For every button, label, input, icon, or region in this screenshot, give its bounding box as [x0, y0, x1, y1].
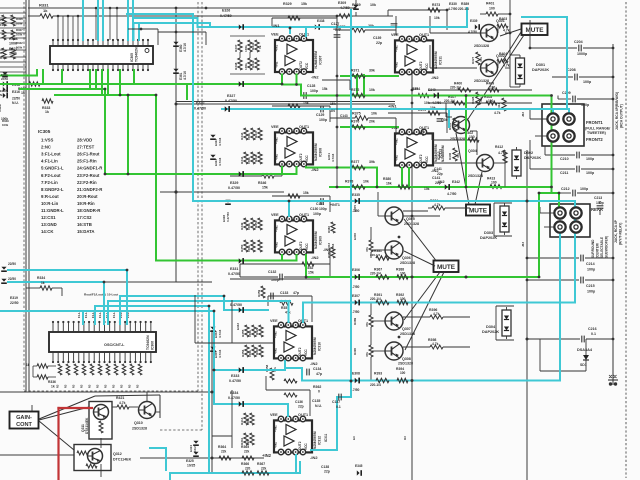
IC305 top pins	[52, 40, 54, 46]
svg-text:E325: E325	[186, 459, 194, 463]
jack pin F1R ring	[563, 113, 574, 124]
svg-text:+IN1: +IN1	[275, 45, 279, 52]
svg-text:OUT2: OUT2	[298, 441, 302, 450]
wire cyan IC306 left feed2	[8, 281, 104, 283]
svg-text:E333: E333	[231, 374, 239, 378]
svg-text:24:GNDF1-R: 24:GNDF1-R	[77, 166, 103, 171]
svg-text:Q304: Q304	[468, 149, 477, 153]
svg-text:10k: 10k	[370, 3, 376, 7]
svg-text:16:STB: 16:STB	[77, 222, 92, 227]
svg-text:1:VSS: 1:VSS	[41, 138, 54, 143]
capacitor C208	[552, 76, 573, 78]
svg-text:47k: 47k	[479, 57, 483, 62]
svg-text:0.47/50: 0.47/50	[226, 212, 230, 222]
svg-text:NJM4565M: NJM4565M	[434, 51, 438, 69]
svg-text:N.U.: N.U.	[0, 93, 6, 97]
left edge stub rows	[0, 7, 26, 9]
svg-text:VCC: VCC	[305, 62, 309, 69]
svg-text:R389: R389	[353, 317, 357, 325]
svg-text:+IN1: +IN1	[275, 225, 279, 232]
jack pin RR	[570, 207, 581, 218]
svg-text:C129: C129	[316, 113, 324, 117]
svg-text:R381: R381	[421, 128, 425, 136]
svg-text:10k: 10k	[424, 187, 430, 191]
svg-text:NJM4565M: NJM4565M	[313, 337, 317, 355]
svg-text:R376: R376	[351, 120, 359, 124]
jack pin RR ring	[570, 207, 581, 218]
jack pin SL	[554, 221, 565, 232]
svg-text:100k: 100k	[244, 45, 248, 52]
svg-text:R355: R355	[241, 329, 245, 337]
svg-text:100: 100	[400, 371, 406, 375]
svg-text:0.47/50: 0.47/50	[220, 14, 232, 18]
capacitor E325	[193, 452, 198, 455]
svg-text:4.7k: 4.7k	[498, 151, 505, 155]
svg-text:E331: E331	[230, 267, 238, 271]
svg-text:F1-L: F1-L	[77, 312, 81, 318]
svg-text:E332: E332	[236, 323, 240, 330]
wire cyan long y380	[302, 380, 560, 382]
svg-text:-IN2: -IN2	[395, 155, 399, 161]
svg-text:VCC: VCC	[305, 155, 309, 162]
capacitor E342 body	[445, 184, 448, 189]
resistor R367b body	[257, 471, 269, 475]
svg-text:47k: 47k	[365, 247, 369, 252]
capacitor E329	[239, 171, 242, 176]
svg-text:10k: 10k	[363, 180, 369, 184]
jack pin SL ring	[554, 221, 565, 232]
svg-text:12:CS1: 12:CS1	[41, 215, 56, 220]
svg-text:1k: 1k	[51, 385, 55, 389]
resistor group R344 R348 A2	[244, 152, 248, 164]
resistor R336	[37, 375, 48, 379]
svg-text:VEE: VEE	[270, 413, 278, 417]
svg-text:+IN1: +IN1	[274, 425, 278, 432]
svg-text:R329: R329	[283, 2, 292, 6]
resistor R375	[330, 117, 355, 119]
resistor Q312 emitter	[86, 464, 97, 468]
wire green R376 row	[341, 126, 398, 128]
junction dots coloured	[465, 94, 468, 97]
svg-text:C215: C215	[586, 284, 595, 288]
wire right cap bus x613	[612, 44, 614, 385]
svg-text:R360: R360	[255, 347, 259, 355]
svg-text:R3: R3	[403, 436, 407, 440]
svg-text:OUT1: OUT1	[419, 33, 429, 37]
wire cyan long y109	[222, 108, 567, 110]
svg-text:10k: 10k	[369, 88, 375, 92]
resistor R335	[37, 364, 48, 368]
svg-text:100: 100	[489, 7, 495, 11]
svg-text:100k: 100k	[247, 245, 251, 252]
resistor R383 R386 columns	[331, 222, 335, 233]
svg-text:100p: 100p	[313, 212, 321, 216]
svg-text:4.7k: 4.7k	[503, 29, 510, 33]
op-amp U-IC313 B2	[395, 133, 433, 165]
svg-text:R367: R367	[257, 462, 265, 466]
svg-text:R353: R353	[254, 220, 258, 228]
svg-text:E319: E319	[10, 296, 18, 300]
wire jack R stubs	[540, 212, 554, 214]
wire black chain x337	[336, 16, 338, 187]
svg-text:+IN1: +IN1	[395, 45, 399, 52]
mute box M1	[522, 24, 548, 36]
svg-text:22/50: 22/50	[8, 262, 16, 266]
jack pin F2R	[563, 130, 574, 141]
resistor R388	[397, 275, 408, 279]
wire bottom stub rows	[0, 454, 74, 456]
wire green long y187	[330, 186, 552, 188]
svg-text:100: 100	[488, 99, 494, 103]
svg-text:22p: 22p	[324, 470, 330, 474]
svg-text:2SD1328: 2SD1328	[474, 44, 489, 48]
svg-text:E342: E342	[452, 180, 460, 184]
wire green B1 pin stubs	[356, 75, 358, 96]
svg-text:-IN1: -IN1	[272, 23, 280, 28]
svg-text:OUT2: OUT2	[419, 154, 423, 163]
svg-text:22/50: 22/50	[8, 277, 16, 281]
svg-text:TWEETER): TWEETER)	[587, 131, 607, 135]
svg-text:4.7/16: 4.7/16	[331, 243, 335, 252]
border dash-dot bottom	[24, 390, 198, 392]
svg-text:100k: 100k	[16, 22, 23, 26]
svg-text:7:F2-Lin: 7:F2-Lin	[41, 180, 58, 185]
resistor R346	[262, 174, 274, 178]
capacitor E333 body	[239, 367, 242, 372]
jack pin F1R	[563, 113, 574, 124]
wire cyan A3 inp stub	[288, 201, 290, 216]
wire green junction x466	[465, 96, 467, 188]
svg-text:2SD1328: 2SD1328	[400, 332, 415, 336]
feedback A2: resistor R345	[272, 105, 330, 107]
wire green rear jack link	[539, 192, 559, 194]
wire green long G2 y95.5	[301, 95, 552, 97]
wire cyan input row y27	[198, 26, 468, 28]
op-amp U-IC309 A3	[275, 220, 313, 252]
svg-text:MUTE: MUTE	[525, 27, 544, 34]
capacitor E335 body	[355, 198, 358, 203]
svg-text:22k: 22k	[244, 450, 250, 454]
svg-text:F1-L: F1-L	[98, 312, 102, 318]
transistor Q306	[385, 241, 403, 259]
svg-text:22/50: 22/50	[12, 97, 20, 101]
svg-text:+IN2: +IN2	[262, 453, 272, 458]
svg-text:R346: R346	[258, 181, 266, 185]
svg-text:22k: 22k	[221, 450, 227, 454]
svg-text:D304: D304	[486, 325, 496, 329]
resistor group R356 R360 A4	[245, 345, 249, 357]
wire DSA3A4 bottom	[540, 370, 586, 372]
svg-text:SURROUND: SURROUND	[591, 239, 595, 258]
svg-text:10k: 10k	[413, 87, 419, 91]
resistor Q312 base	[77, 451, 88, 455]
wire green A3 out to y277	[305, 255, 307, 277]
capacitor E324	[193, 441, 198, 444]
svg-text:R350: R350	[240, 244, 244, 252]
svg-text:-IN2: -IN2	[311, 75, 319, 80]
svg-text:OUT2: OUT2	[299, 153, 303, 162]
svg-text:R334: R334	[37, 276, 45, 280]
svg-text:N.U.: N.U.	[12, 101, 19, 105]
wire cyan A4 bottom jog	[284, 361, 286, 368]
capacitor C137 body	[338, 394, 340, 401]
svg-text:15k: 15k	[330, 102, 336, 106]
svg-text:220-1/4: 220-1/4	[444, 99, 455, 103]
text block IC305 pin list	[38, 129, 103, 234]
resistor R365	[242, 456, 254, 460]
wire cyan top line1	[127, 13, 193, 15]
svg-text:0.47/50: 0.47/50	[194, 107, 206, 111]
resistor R404	[497, 59, 508, 63]
capacitor E341 body	[434, 93, 437, 98]
wire Q303 base link	[445, 103, 447, 117]
svg-text:IC310: IC310	[318, 342, 322, 351]
svg-text:2SD1328: 2SD1328	[398, 362, 413, 366]
svg-text:0.1: 0.1	[591, 332, 596, 336]
svg-text:C136: C136	[295, 400, 303, 404]
wire vertical E360 column	[175, 8, 177, 282]
svg-text:C137: C137	[332, 400, 340, 404]
capacitor C139	[391, 23, 398, 25]
svg-text:E326: E326	[222, 9, 230, 13]
svg-text:R3: R3	[104, 384, 108, 388]
svg-text:VEE: VEE	[270, 319, 278, 323]
resistor R333	[42, 99, 53, 103]
svg-text:R327: R327	[471, 56, 475, 64]
svg-text:R-L: R-L	[0, 51, 5, 55]
wire top rail	[28, 7, 356, 9]
capacitor E328	[225, 200, 230, 203]
capacitor E302	[210, 327, 215, 330]
svg-text:-IN2: -IN2	[275, 61, 279, 67]
feedback network B1: resistor R373	[388, 9, 447, 11]
wire mute M2 fan	[404, 219, 436, 261]
svg-text:C128: C128	[307, 84, 315, 88]
svg-text:R349: R349	[240, 222, 244, 230]
svg-text:R412: R412	[495, 145, 503, 149]
svg-text:100k: 100k	[16, 46, 23, 50]
svg-text:C139: C139	[373, 36, 381, 40]
svg-text:100p: 100p	[586, 171, 595, 175]
svg-text:Q310: Q310	[134, 421, 143, 425]
op-amp U-IC312 A5	[274, 420, 312, 452]
transistor Q302	[481, 60, 498, 77]
svg-text:R337: R337	[234, 44, 238, 52]
svg-text:DAP202K: DAP202K	[532, 68, 549, 72]
resistor R378 body	[352, 185, 365, 189]
capacitor C215	[527, 279, 579, 281]
wire cyan long y201	[193, 200, 575, 202]
mute box M2	[434, 261, 459, 273]
resistor group R350 R354 A3	[244, 240, 248, 252]
svg-text:-IN2: -IN2	[431, 75, 439, 80]
svg-text:E339: E339	[470, 19, 478, 23]
IC U-IC305 TC9462N	[50, 46, 153, 64]
resistor R394 body	[397, 378, 408, 382]
resistor R411	[502, 98, 506, 111]
jack pin RL	[554, 207, 565, 218]
capacitor E313 body	[1, 267, 6, 270]
svg-text:-IN2: -IN2	[310, 361, 318, 366]
svg-text:E320: E320	[196, 101, 204, 105]
svg-text:+IN1: +IN1	[395, 138, 399, 145]
transistor Q305	[385, 207, 403, 225]
resistor R413b	[490, 185, 502, 189]
resistor R325	[11, 15, 15, 26]
capacitor E327 body	[239, 81, 242, 86]
wire cyan front jack stubs	[552, 109, 554, 116]
svg-text:VCC: VCC	[304, 443, 308, 450]
svg-text:14:CK: 14:CK	[41, 229, 54, 234]
svg-text:(R/Y/T-RELAY): (R/Y/T-RELAY)	[619, 223, 623, 245]
svg-text:C132: C132	[268, 270, 276, 274]
wire IC305 top pin risers	[57, 16, 59, 40]
transistor Q307	[385, 312, 403, 330]
wire top-left jumble	[128, 28, 158, 30]
transistor Q305b base rail	[371, 320, 385, 322]
resistor R396	[430, 315, 443, 319]
svg-text:2SD1328: 2SD1328	[132, 427, 147, 431]
resistor R400	[458, 88, 471, 92]
svg-text:R3: R3	[72, 384, 76, 388]
op-amp U-IC310 A4	[274, 326, 312, 358]
svg-text:R373: R373	[432, 3, 440, 7]
svg-text:GAIN-: GAIN-	[16, 415, 32, 421]
wire Q30x collector rail	[509, 0, 511, 60]
svg-text:DAP202K: DAP202K	[480, 236, 497, 240]
svg-text:27:TEST: 27:TEST	[77, 145, 95, 150]
svg-text:E330: E330	[449, 2, 457, 6]
svg-text:13:GND: 13:GND	[41, 222, 57, 227]
wire cyan bundle line1	[0, 310, 214, 312]
wire vertical x212	[211, 330, 213, 473]
svg-text:11:GNDR-L: 11:GNDR-L	[41, 208, 64, 213]
diode D303 DAP202K	[500, 206, 509, 232]
op-amp U-IC307 A1	[275, 40, 313, 72]
wire jack F stubs	[530, 118, 547, 120]
capacitor E306	[355, 274, 358, 279]
svg-text:R372: R372	[351, 88, 359, 92]
svg-text:R375: R375	[352, 112, 361, 116]
svg-text:Q312: Q312	[113, 452, 122, 456]
svg-text:20k: 20k	[369, 120, 375, 124]
svg-text:26:F1-Rout: 26:F1-Rout	[77, 152, 100, 157]
svg-text:1000p: 1000p	[577, 52, 588, 56]
wire B2 in stubs	[395, 16, 397, 35]
wire D301 leads	[510, 54, 520, 56]
svg-text:4.7/16: 4.7/16	[183, 71, 187, 80]
svg-text:OUT2: OUT2	[299, 241, 303, 250]
svg-text:R3: R3	[96, 384, 100, 388]
svg-text:C127: C127	[331, 22, 339, 26]
svg-text:(RCA OUTPUT): (RCA OUTPUT)	[620, 104, 624, 128]
capacitor E334 body	[239, 401, 242, 406]
resistor R408	[486, 101, 497, 105]
svg-text:0: 0	[318, 390, 320, 394]
wire A4 aux frame	[231, 300, 233, 343]
svg-text:4.7/16: 4.7/16	[183, 43, 187, 52]
resistor R407	[452, 101, 465, 105]
svg-text:FRONT2: FRONT2	[586, 137, 603, 142]
wire green R371 row	[341, 75, 398, 77]
capacitor C216	[527, 338, 580, 340]
svg-text:E335: E335	[352, 193, 360, 197]
svg-text:R359: R359	[257, 289, 261, 297]
svg-text:E334: E334	[230, 391, 238, 395]
svg-text:100k: 100k	[248, 330, 252, 337]
wire A1 res col	[239, 52, 241, 58]
svg-text:16k: 16k	[386, 182, 392, 186]
feedback A3: resistor	[272, 195, 330, 197]
wire IC306 left link	[100, 281, 176, 283]
svg-text:OUT1: OUT1	[299, 32, 309, 36]
IC306 top pins	[52, 322, 54, 332]
resistor R324	[2, 15, 6, 26]
diode D301 DAP202K	[516, 58, 525, 84]
svg-text:18:GNDR-R: 18:GNDR-R	[77, 208, 101, 213]
svg-text:VCC: VCC	[304, 349, 308, 356]
capacitor E332 body	[239, 307, 242, 312]
wire green A1 out jog	[281, 75, 283, 85]
resistor R398	[430, 345, 443, 349]
resistor R329	[288, 16, 300, 20]
svg-text:R322: R322	[16, 41, 23, 45]
svg-text:22/50: 22/50	[10, 301, 19, 305]
svg-text:MUTE: MUTE	[469, 208, 488, 215]
wire D303 box	[494, 202, 512, 204]
connector J2 FRONT jack	[542, 104, 584, 146]
svg-text:VCC: VCC	[425, 156, 429, 163]
svg-text:F1-L: F1-L	[84, 312, 88, 318]
resistor R403	[497, 24, 508, 28]
IC306 bottom pins	[52, 352, 54, 362]
svg-text:17:CS2: 17:CS2	[77, 215, 92, 220]
svg-text:SUBWOOFER): SUBWOOFER)	[605, 236, 609, 258]
svg-text:FRONT1: FRONT1	[586, 120, 603, 125]
text R328b column	[476, 92, 480, 105]
wire Q305 area	[378, 215, 385, 217]
svg-text:1k: 1k	[43, 8, 48, 13]
resistor R364	[219, 456, 231, 460]
svg-text:R356: R356	[241, 349, 245, 357]
resistor group R337 R341 A1	[238, 40, 242, 52]
capacitor E318	[3, 81, 6, 86]
svg-text:E3: E3	[352, 436, 356, 440]
wire green vertical x105	[104, 89, 106, 174]
svg-text:C143: C143	[340, 114, 348, 118]
wire IC306 bottom-left stubs	[33, 365, 37, 367]
resistor R402	[468, 138, 479, 142]
svg-text:4.7/16: 4.7/16	[218, 157, 222, 166]
svg-text:VCC: VCC	[305, 243, 309, 250]
svg-text:15:DATA: 15:DATA	[77, 229, 95, 234]
jack pin F2L ring	[547, 130, 558, 141]
svg-text:C216: C216	[588, 327, 597, 331]
svg-text:DSA3A4: DSA3A4	[577, 348, 593, 352]
capacitor C209	[558, 98, 571, 100]
border dash-dot left	[23, 2, 25, 390]
transistor Q301	[481, 25, 498, 42]
svg-text:4.7/50: 4.7/50	[448, 7, 458, 11]
svg-text:0.47/50: 0.47/50	[229, 379, 241, 383]
svg-text:IC305: IC305	[38, 129, 51, 134]
svg-text:R393: R393	[374, 372, 382, 376]
svg-text:R343: R343	[240, 132, 244, 140]
svg-text:1k: 1k	[41, 281, 45, 285]
svg-text:2SD1328: 2SD1328	[400, 261, 415, 265]
svg-text:0.47/50: 0.47/50	[225, 99, 237, 103]
resistor R367 body	[376, 275, 389, 279]
